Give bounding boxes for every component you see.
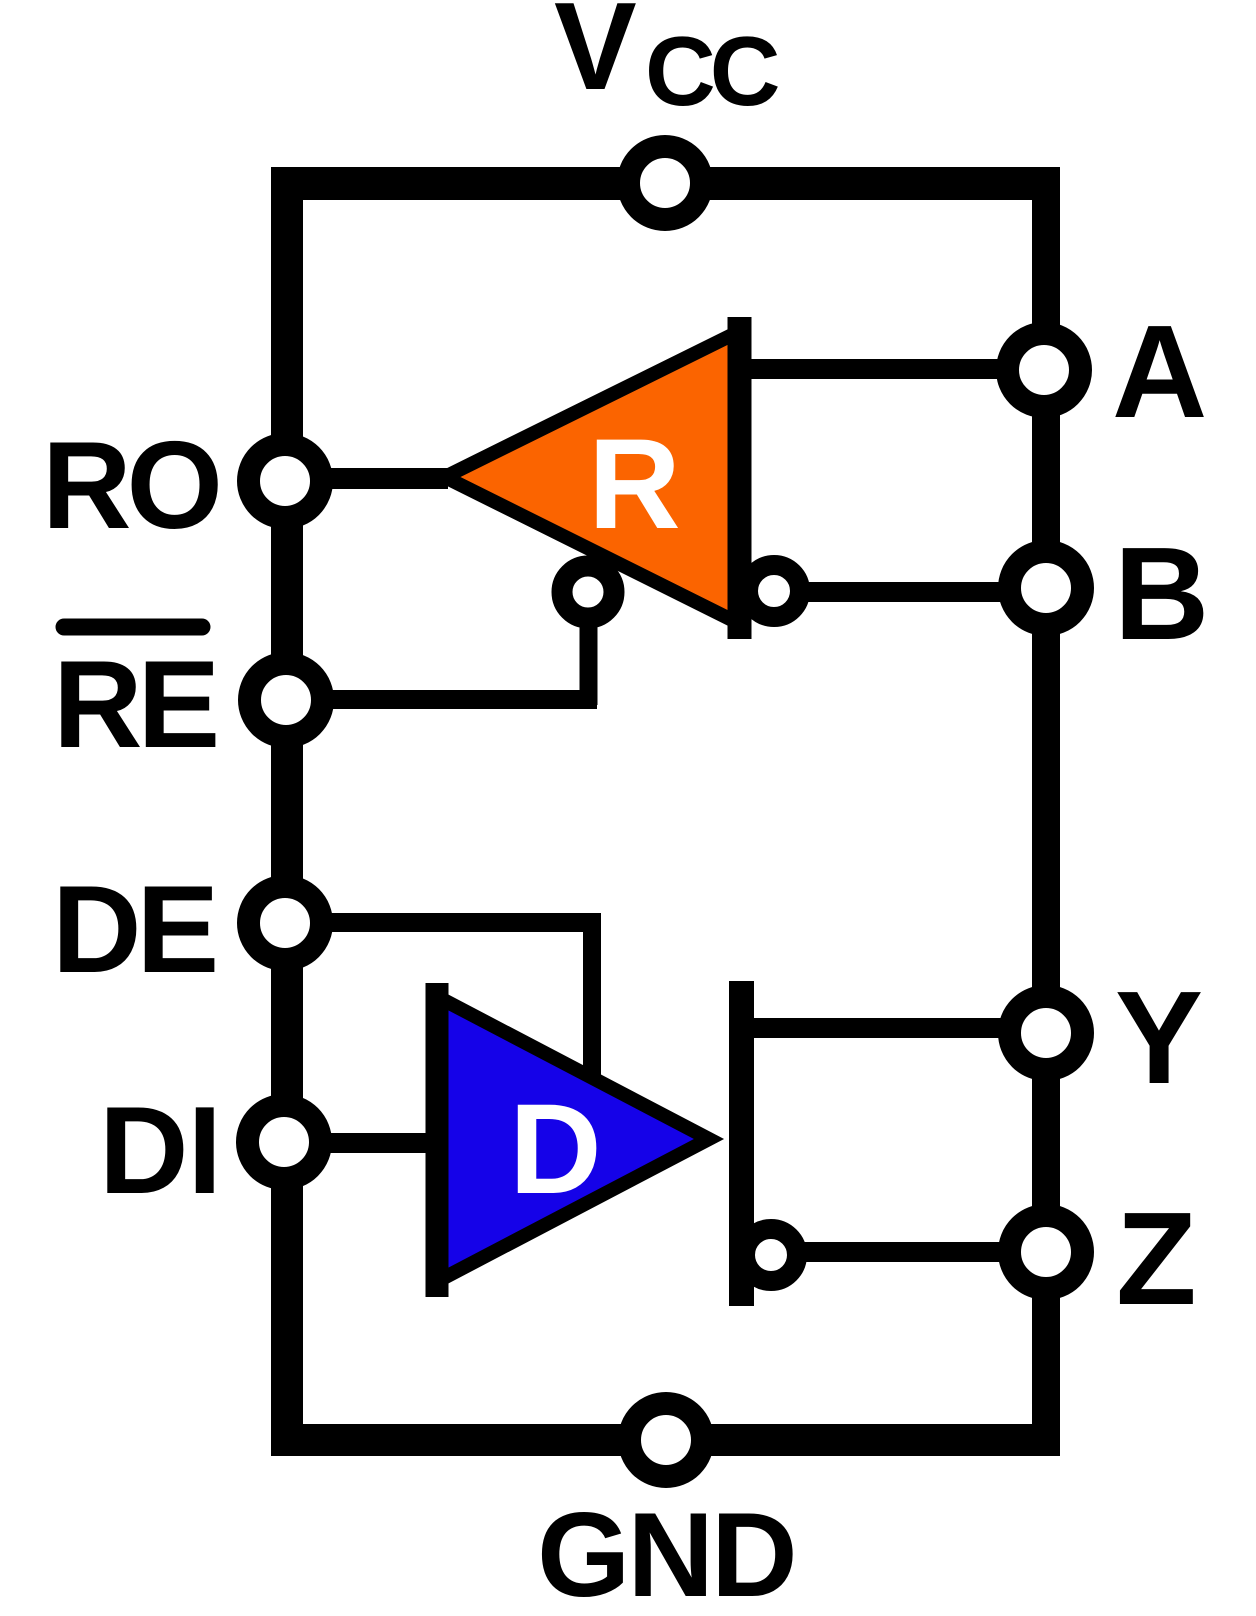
wire: receiver input B horizontal from bubble bbox=[790, 582, 1035, 602]
pin Y bbox=[1010, 997, 1083, 1070]
wire: outer loop left vertical bbox=[271, 167, 303, 1456]
svg-text:GND: GND bbox=[537, 1488, 795, 1616]
svg-text:D: D bbox=[509, 1078, 601, 1221]
svg-text:Y: Y bbox=[1115, 964, 1203, 1111]
svg-text:B: B bbox=[1114, 520, 1209, 667]
svg-text:DI: DI bbox=[99, 1082, 221, 1220]
pin B bbox=[1010, 552, 1083, 625]
svg-text:V: V bbox=[554, 0, 637, 116]
pin VCC bbox=[629, 147, 702, 220]
svg-text:CC: CC bbox=[645, 16, 779, 126]
receiver U1 (orange triangle, R) bbox=[445, 329, 744, 626]
svg-text:A: A bbox=[1112, 298, 1207, 445]
wire: DE horizontal bbox=[300, 913, 592, 932]
wire: receiver enable horizontal to RE pin bbox=[300, 690, 597, 709]
wire: DI to driver input bbox=[300, 1133, 440, 1153]
svg-text:DE: DE bbox=[52, 861, 215, 999]
wire: outer loop right vertical bbox=[1032, 167, 1060, 1456]
receiver inverting input bubble (B) bbox=[748, 565, 800, 617]
wire: outer loop bottom (GND rail) bbox=[271, 1424, 1060, 1456]
wire: DE vertical down into driver bbox=[583, 913, 601, 1081]
wire: driver output Y horizontal bbox=[745, 1018, 1035, 1038]
svg-text:Z: Z bbox=[1116, 1185, 1197, 1332]
pin Z bbox=[1010, 1216, 1083, 1289]
pin DI bbox=[248, 1106, 321, 1179]
overline for RE bbox=[64, 619, 202, 636]
driver output bar bbox=[729, 981, 754, 1306]
pin A bbox=[1008, 334, 1081, 407]
svg-text:RE: RE bbox=[53, 636, 216, 774]
pin RE bbox=[250, 664, 323, 737]
driver U2 (blue triangle, D) bbox=[437, 997, 709, 1282]
wire: RO to receiver tip bbox=[300, 468, 448, 489]
receiver enable bubble (active-low RE) bbox=[562, 566, 614, 618]
svg-text:RO: RO bbox=[42, 417, 219, 555]
pin RO bbox=[249, 445, 322, 518]
svg-text:R: R bbox=[588, 413, 680, 556]
wire: outer loop top (VCC rail) bbox=[271, 167, 1060, 200]
driver inverting output bubble (Z) bbox=[745, 1229, 797, 1281]
wire: driver output Z horizontal from bubble bbox=[790, 1242, 1035, 1262]
wire: receiver input A horizontal bbox=[740, 359, 1035, 379]
pin GND bbox=[630, 1404, 703, 1477]
receiver U1 back edge (right vertical bar of triangle) bbox=[728, 317, 752, 639]
wire: receiver enable vertical from bubble bbox=[580, 600, 598, 705]
pin DE bbox=[249, 887, 322, 960]
driver U2 back edge (left vertical bar of triangle) bbox=[426, 983, 449, 1297]
